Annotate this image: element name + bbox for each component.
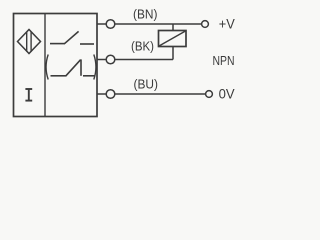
svg-text:(BU): (BU) <box>134 78 159 92</box>
svg-text:0V: 0V <box>219 86 235 101</box>
svg-text:+V: +V <box>219 16 235 31</box>
svg-text:(BN): (BN) <box>133 7 158 21</box>
svg-text:NPN: NPN <box>213 53 235 68</box>
svg-text:(BK): (BK) <box>131 39 154 53</box>
